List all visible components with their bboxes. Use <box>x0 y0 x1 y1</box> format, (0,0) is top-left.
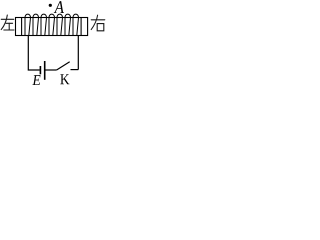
label 右 (right) <box>91 15 105 31</box>
switch K label <box>60 74 69 84</box>
wire left (from coil down to battery) <box>28 36 40 71</box>
solenoid right end cap line <box>80 18 82 36</box>
wire right (from coil down to switch) <box>77 36 79 70</box>
solenoid left end cap line <box>21 18 23 36</box>
wire middle (battery to switch) <box>45 69 56 71</box>
solenoid turns (7 loops) <box>25 14 79 35</box>
label 左 (left) <box>1 15 14 30</box>
switch K blade <box>57 62 70 70</box>
battery E label <box>32 75 40 85</box>
battery E short plate <box>39 66 41 74</box>
battery E long plate <box>44 61 46 80</box>
switch K contact stub <box>71 69 79 71</box>
solenoid L body rectangle <box>16 18 88 36</box>
node A label <box>54 1 64 13</box>
node A dot <box>49 4 52 7</box>
